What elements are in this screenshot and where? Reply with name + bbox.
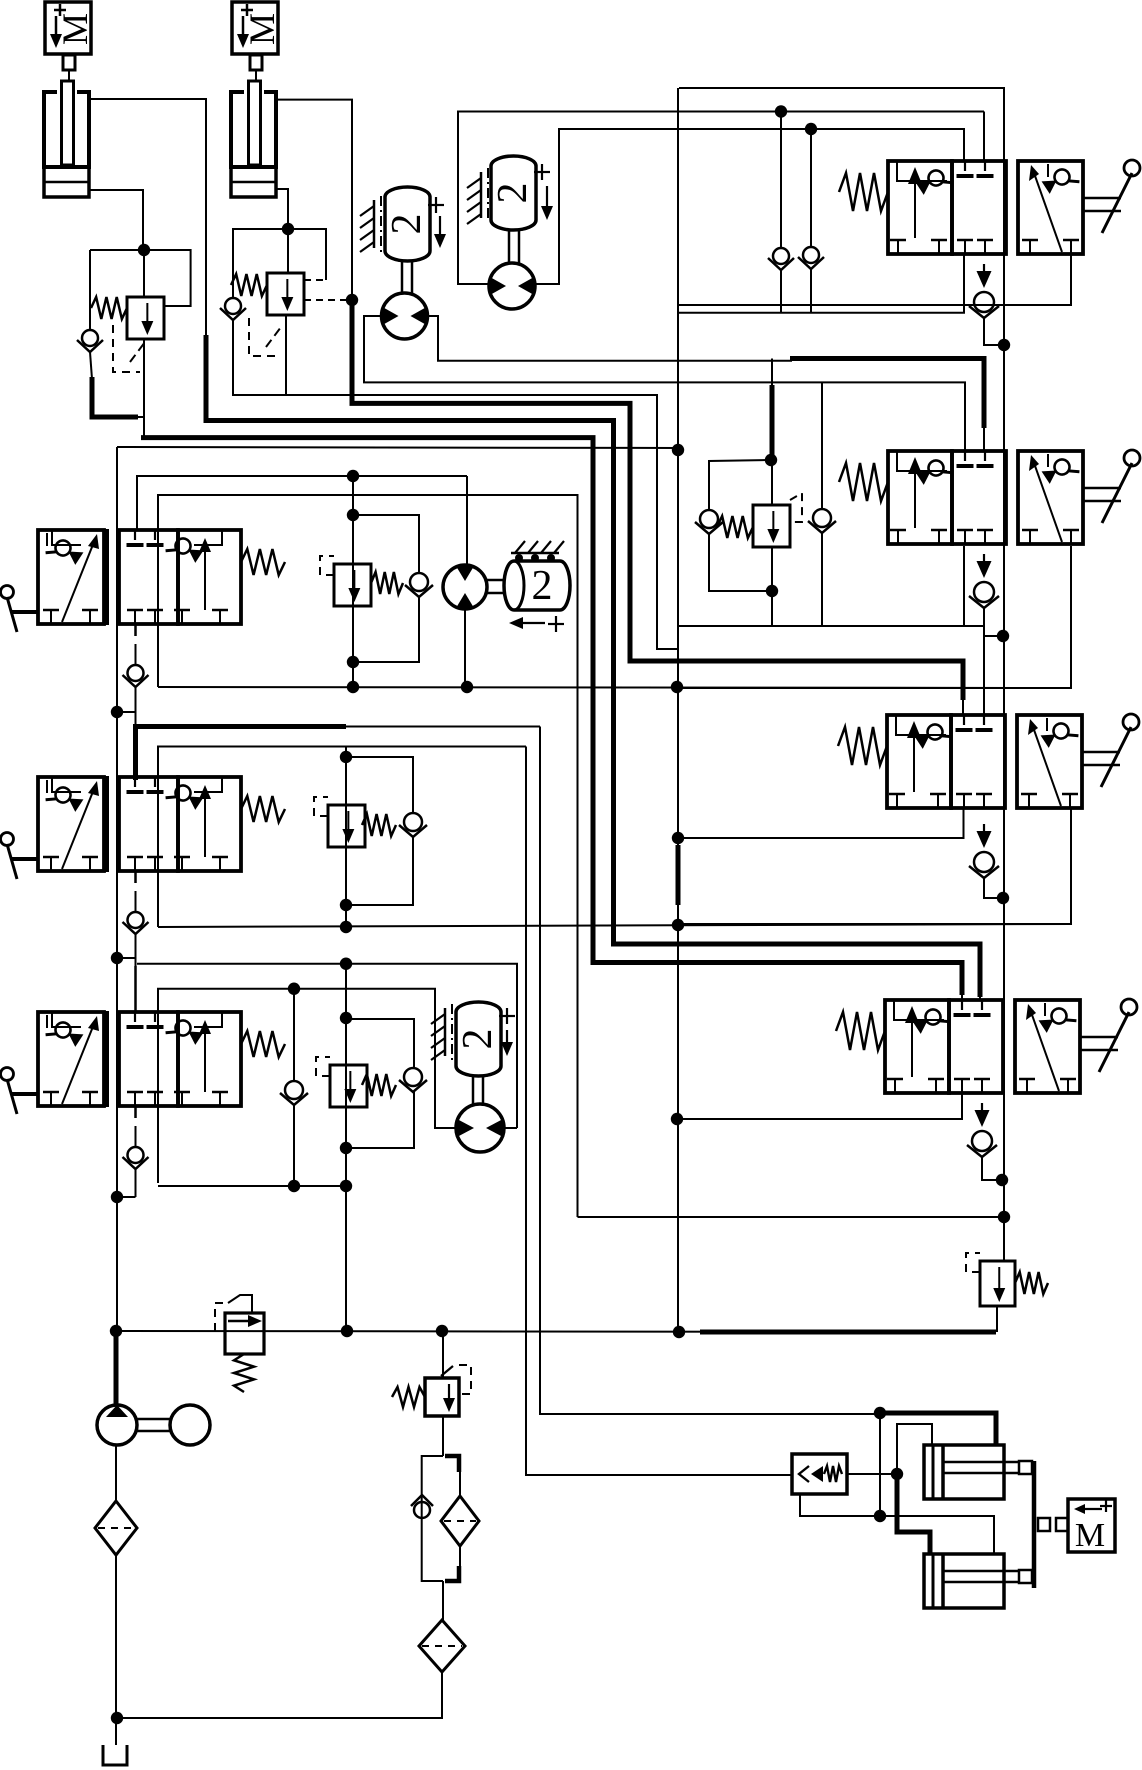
node RVM3 loop: [340, 1142, 352, 1154]
node RV2 top: [282, 223, 294, 235]
arrow C: [509, 617, 545, 629]
filter F3: [419, 1620, 465, 1672]
wire CV-A to bus: [780, 270, 782, 313]
wire RV-M3 to bus: [345, 1186, 347, 1331]
wire RV2 right loop: [288, 229, 326, 280]
wire motor D left port: [435, 1122, 457, 1128]
node supply 1197: [111, 1191, 123, 1203]
rotary actuator B (cylinder 2): [490, 156, 536, 230]
plus label B: [534, 164, 550, 180]
wire main bus y1331: [116, 1331, 996, 1332]
arrow D: [501, 1030, 513, 1056]
plus label D: [499, 1008, 515, 1024]
relief valve RV-P2: [425, 1366, 459, 1416]
node supply 958: [111, 952, 123, 964]
wire F1 to bottom: [115, 1555, 117, 1745]
wire CV-B to bus: [810, 269, 812, 313]
spring of RV1: [91, 297, 127, 319]
thick brake line 2: [897, 1474, 930, 1554]
node brake a: [874, 1407, 886, 1419]
wire CY2 bottom to relief RV2: [276, 189, 288, 229]
node R3 drain: [997, 892, 1009, 904]
thick bus T2: [206, 418, 980, 997]
svg-text:2: 2: [455, 1029, 501, 1050]
node RVM1 b: [347, 509, 359, 521]
pilot check box: [792, 1454, 847, 1494]
wire CY1 bottom to relief RV1: [89, 190, 143, 250]
wire R2 tank port: [677, 546, 1071, 688]
yoke bar: [1032, 1461, 1037, 1588]
wire RV-P2 to block: [442, 1416, 444, 1456]
node R1 drain: [998, 339, 1010, 351]
node bus 442: [436, 1325, 448, 1337]
wire CV-M1 loop: [353, 515, 419, 573]
node bus 347: [341, 1325, 353, 1337]
pilot dash RV2 b: [304, 299, 352, 301]
node supply 1331: [110, 1325, 122, 1337]
wire CV-R2L down: [709, 533, 772, 591]
wire motor D right port: [504, 1127, 517, 1129]
check valve CV1: [77, 330, 103, 352]
directional valve L3: [1, 1011, 286, 1114]
hydraulic motor C: [443, 565, 487, 609]
svg-text:M: M: [1075, 1517, 1105, 1554]
check valve under R3: [969, 824, 1003, 898]
wire pcheck bottom: [800, 1494, 880, 1516]
wire motor A right to valve R2: [983, 425, 985, 451]
wire F2 stub bottom: [459, 1546, 461, 1566]
wire RV2 drain to return: [286, 395, 677, 649]
node RVM1 d: [347, 681, 359, 693]
node motorC out: [461, 681, 473, 693]
relief valve RV2: [267, 273, 304, 315]
tank T: [103, 1745, 127, 1765]
pilot dashes RV1: [113, 325, 145, 372]
check valve under L2: [123, 871, 149, 985]
wall anchor of actuator C: [511, 541, 564, 562]
wire CV2 down: [233, 320, 286, 395]
wire block to F3: [442, 1581, 444, 1621]
spring of RV-M3: [362, 1074, 396, 1096]
spring of RV-P2: [392, 1387, 425, 1407]
wire circuit3 feed: [137, 964, 517, 1128]
node return 450: [672, 444, 684, 456]
thick T2 riser: [204, 335, 209, 421]
svg-text:2: 2: [384, 214, 430, 235]
wire CY2 top to node x352: [276, 100, 352, 300]
wire F3 to tank line: [117, 1672, 442, 1718]
node supply 712: [111, 706, 123, 718]
check valve CV-D: [280, 1081, 308, 1105]
arrow A: [434, 216, 446, 248]
svg-text:2: 2: [490, 183, 536, 204]
wire motor B left port: [458, 112, 984, 285]
wire pcheck out: [847, 1473, 897, 1475]
motor M1 (electric motor box): [45, 2, 95, 54]
check valve CV-M1: [405, 573, 433, 597]
node RV-R2 top: [765, 454, 777, 466]
directional valve R2: [839, 450, 1140, 544]
pilot dashes RV2 box: [249, 318, 281, 356]
node RVM2 b: [340, 921, 352, 933]
rod B: [509, 230, 519, 264]
node RVM2 loop: [340, 899, 352, 911]
relief valve RV-M1: [334, 564, 371, 606]
directional valve R1: [839, 160, 1140, 254]
node RVM1 c: [347, 656, 359, 668]
wire F2 stub top: [459, 1472, 461, 1496]
node RVM1 a: [347, 470, 359, 482]
node collector-1217: [998, 1211, 1010, 1223]
hydraulic motor A: [382, 293, 428, 339]
rotary actuator C (cylinder 2): [504, 561, 570, 610]
spring of RV-P1: [234, 1354, 254, 1392]
node B-A junction: [775, 105, 787, 117]
wire return collector right: [679, 88, 1004, 1261]
wire RV-M2 line: [345, 747, 347, 928]
pump P (double): [97, 1405, 210, 1445]
spring of RV2: [231, 274, 267, 296]
arrow B: [541, 186, 553, 220]
thick return segment: [676, 845, 681, 905]
wall anchor of actuator D: [431, 1004, 452, 1060]
check valve under R4: [967, 1103, 1002, 1180]
wire check CV-A line: [780, 112, 782, 248]
plus label C: [548, 616, 564, 632]
motor M2 (electric motor box): [232, 2, 282, 54]
wire RV1 left branch: [89, 250, 91, 329]
check valve CV-M3: [399, 1068, 427, 1092]
wire pilot line x526: [526, 747, 792, 1476]
filter F2: [441, 1496, 479, 1546]
wire motor A right port: [427, 316, 792, 361]
wire CV-M2 down: [346, 836, 413, 905]
wire CV-M2 loop: [346, 757, 413, 813]
wire R1 bottom bus: [679, 254, 964, 313]
wire L3 jog: [117, 1196, 136, 1198]
thick bus T3: [141, 438, 962, 995]
wire CV1 link: [136, 416, 143, 418]
rotary actuator D (cylinder 2): [455, 1002, 501, 1076]
wire RV-R2 inlet: [771, 359, 773, 506]
relief valve RV-P1: [225, 1313, 264, 1354]
wire R3 bottom bus: [678, 807, 964, 838]
wire circuit2 box: [158, 747, 526, 928]
node brake c: [874, 1510, 886, 1522]
wire check CV-B line: [810, 129, 812, 246]
node return 1119: [671, 1113, 683, 1125]
cylinder CY1 (plunger cylinder): [44, 55, 89, 197]
wire CY1 top to node x206: [89, 99, 206, 421]
thick pump outlet: [114, 1334, 119, 1404]
wire RV2 outlet: [285, 315, 287, 395]
rod A: [402, 261, 412, 294]
node B-B junction: [805, 123, 817, 135]
hydraulic motor D: [456, 1104, 504, 1152]
check valve CV-BP: [411, 1495, 433, 1518]
wire R1 tank port: [679, 254, 1071, 305]
shaft C: [487, 580, 505, 593]
brake cylinder BC2: [924, 1554, 1032, 1608]
cylinder CY2 (plunger cylinder): [231, 55, 276, 197]
wire feed circuit2 thin: [346, 726, 540, 728]
wire RV-M3 line: [345, 964, 347, 1186]
filter F1: [95, 1501, 137, 1555]
wire L1 jog: [117, 711, 136, 713]
pilot dashes RV-M3: [316, 1057, 330, 1076]
wall anchor of actuator A: [360, 196, 381, 252]
pilot dashes RV-R4: [966, 1253, 980, 1272]
wire main return x678: [677, 88, 679, 1332]
wire R3 tank port: [678, 807, 1071, 924]
pilot dashes RV-P1: [215, 1295, 252, 1331]
rotary actuator A (cylinder 2): [384, 187, 430, 261]
wire circuit2 bus: [158, 924, 1071, 927]
spring of RV-R2: [717, 516, 753, 538]
spring of RV-M2: [362, 814, 396, 836]
node return 1332: [673, 1326, 685, 1338]
node tank junction: [111, 1712, 123, 1724]
node R2 drain: [997, 630, 1009, 642]
bypass thick corner top: [445, 1456, 459, 1472]
wire T3 to R4 port: [961, 993, 963, 1000]
wire RV1 inlet: [143, 250, 145, 297]
thick brake line 1: [884, 1413, 996, 1445]
spring of RV-M1: [371, 572, 403, 594]
check valve under R1: [969, 264, 1004, 345]
relief valve RV-R4: [980, 1261, 1015, 1306]
check valve CV-B: [798, 247, 824, 269]
check valve under L1: [123, 624, 149, 745]
directional valve R3: [838, 714, 1139, 808]
wire circuit3 bus: [158, 1185, 346, 1187]
node x352 junction: [346, 294, 358, 306]
check valve CV-R2R: [808, 509, 836, 533]
plus label A: [428, 197, 444, 213]
wire RV2 inlet: [287, 229, 289, 273]
wire circuit3 inner box: [158, 989, 435, 1183]
pilot dashes RV-M1: [320, 556, 334, 575]
node return 925: [672, 919, 684, 931]
wire CV-M3 down: [346, 1091, 414, 1148]
wire CV1 drain: [90, 352, 92, 379]
hydraulic motor B: [489, 263, 535, 309]
wire CV-M1 down: [353, 596, 419, 662]
wire T1 to R3 port: [962, 698, 964, 715]
check valve CV-R2L: [695, 510, 723, 534]
check valve under R2: [969, 554, 1003, 636]
wire RV1 outlet: [143, 339, 145, 438]
motor M3 box: [1068, 1499, 1115, 1554]
relief valve RV1: [127, 297, 164, 339]
check valve CV2: [220, 298, 246, 320]
thick stub L2 feed: [133, 724, 138, 780]
relief valve RV-R2: [753, 505, 790, 547]
node brake b: [891, 1468, 903, 1480]
node return 687: [671, 681, 683, 693]
svg-text:2: 2: [532, 563, 553, 609]
rod D: [473, 1076, 483, 1106]
relief valve RV-M3: [330, 1065, 367, 1107]
node RV1 top: [138, 244, 150, 256]
wire RV-M1 line: [352, 476, 354, 687]
check valve under L3: [123, 1106, 149, 1197]
directional valve R4: [836, 999, 1137, 1093]
brake cylinder BC1: [924, 1445, 1032, 1499]
check valve CV-M2: [399, 813, 427, 837]
wire motor B right port: [535, 129, 964, 284]
yoke link: [1038, 1518, 1068, 1531]
node circuit3 cv: [288, 983, 300, 995]
wire RV-R2 outlet: [771, 547, 773, 626]
check valve CV-A: [768, 248, 794, 270]
wire RV-P2 feed: [442, 1331, 444, 1378]
wire R4 bottom bus: [678, 1094, 962, 1119]
wire circuit1 bus: [158, 687, 1071, 688]
wire motor A left port: [364, 316, 965, 451]
node RV-R2 bottom: [766, 585, 778, 597]
relief valve RV-M2: [328, 805, 365, 847]
thick feed circuit2: [136, 724, 347, 729]
wire pcheck top link: [897, 1424, 932, 1474]
svg-text:M: M: [242, 13, 282, 45]
wire RV-R2 inlet thick: [770, 385, 775, 455]
wire drain line y1217: [578, 1216, 1005, 1218]
spring of RV-R4: [1015, 1272, 1048, 1294]
node RVM3 b: [340, 1012, 352, 1024]
wire circuit1 inner box: [158, 495, 578, 1217]
wall anchor of actuator B: [467, 168, 488, 224]
wire CV-D line: [293, 989, 295, 1081]
wire CV-D down: [293, 1104, 295, 1186]
wire CV-R2R line: [821, 382, 823, 509]
wire supply top box: [117, 447, 678, 448]
wire L2 jog: [117, 957, 136, 959]
wire CV1 drain to bus: [92, 377, 138, 417]
node RVM3 a: [340, 958, 352, 970]
wire T2 to R4 port: [979, 995, 981, 1000]
node RVM3 c: [340, 1180, 352, 1192]
stub L3 feed: [134, 966, 137, 1013]
thick main bus y1332: [700, 1330, 996, 1335]
wire RV-R2 check loop top: [709, 460, 771, 510]
wire supply x117: [116, 447, 118, 1331]
wire L1 feed port: [137, 476, 467, 530]
node return 838: [672, 832, 684, 844]
wire RV-R4 outlet: [996, 1306, 998, 1332]
wire R2 bottom port: [963, 546, 965, 626]
directional valve L2: [1, 776, 286, 879]
wire brake to cyl2r: [880, 1516, 994, 1554]
wire RV2 left loop: [233, 229, 288, 297]
wire motor A right port thick: [790, 359, 984, 429]
pilot dashes RV-M2: [314, 797, 328, 816]
wire motor C out: [464, 609, 466, 687]
wire brake vert: [879, 1413, 881, 1516]
node R4 drain: [996, 1174, 1008, 1186]
node circuit3 cv2: [288, 1180, 300, 1192]
wire R2 bottom bus: [677, 626, 984, 715]
bypass block box: [422, 1456, 443, 1581]
pilot dashes RV-R2: [790, 493, 802, 522]
wire motor C line: [466, 476, 468, 566]
thick bus T1: [352, 298, 963, 700]
wire CV-R2R down: [821, 532, 823, 626]
wire CV-M3 loop: [346, 1019, 414, 1068]
directional valve L1: [1, 529, 286, 632]
pilot dash RV2 a: [304, 279, 326, 281]
bypass thick corner bottom: [445, 1566, 459, 1581]
svg-text:M: M: [55, 13, 95, 45]
wire pilot line x540: [540, 727, 880, 1415]
wire RV1 top loop: [90, 250, 191, 306]
pilot dashes RV-P2: [459, 1365, 471, 1394]
wire motor B to valve R1 a: [983, 112, 985, 162]
node RVM2 a: [340, 751, 352, 763]
wire pump inlet: [115, 1445, 117, 1502]
